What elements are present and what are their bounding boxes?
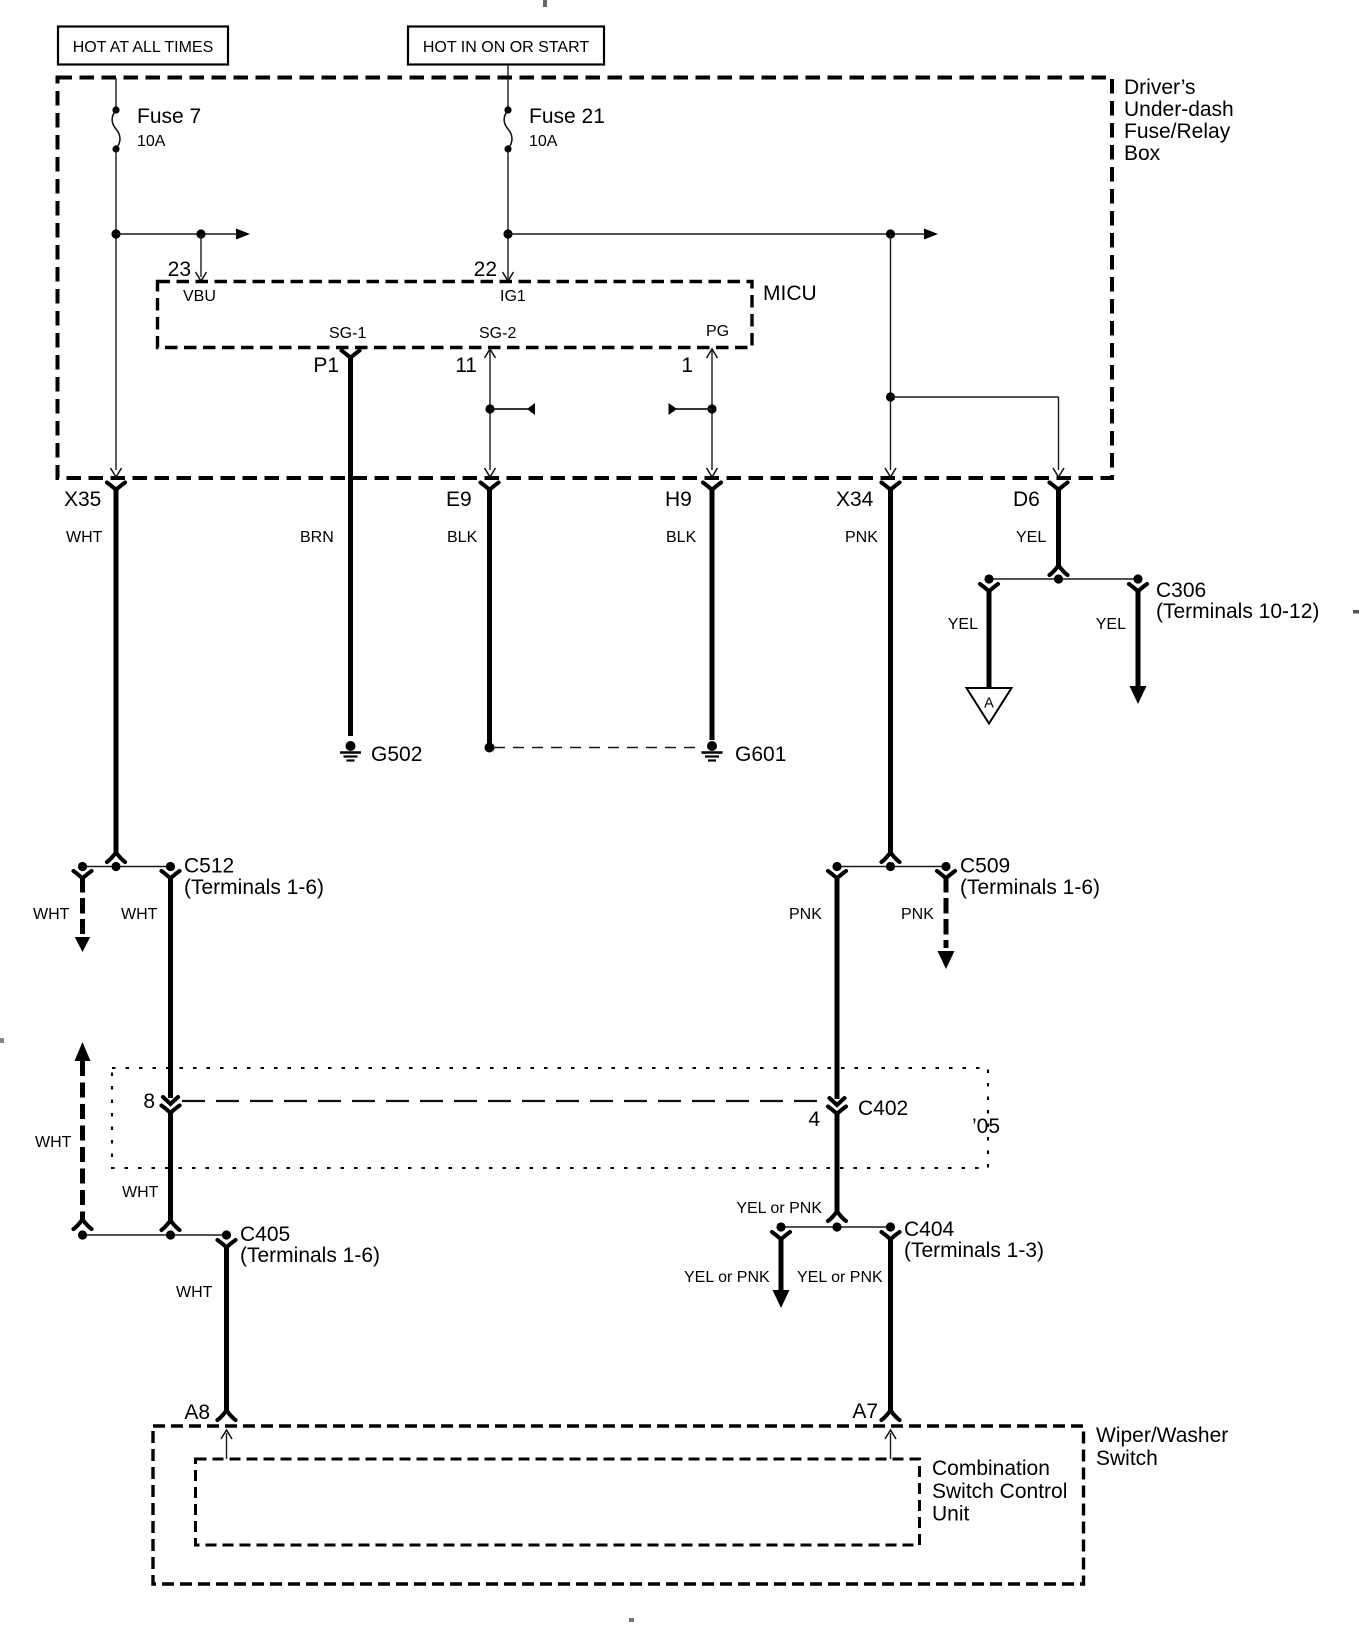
svg-text:YEL or PNK: YEL or PNK (684, 1269, 770, 1286)
arrow into E9 (485, 468, 496, 477)
feed arrow right (right stub) (924, 229, 938, 240)
label C405 (240, 1223, 380, 1267)
C306 male fork at wire end (1050, 567, 1068, 576)
svg-text:YEL: YEL (948, 616, 978, 633)
wire YEL or PNK stub (arrow down) (779, 1238, 784, 1290)
wire BLK H9 to G601 (710, 487, 715, 740)
wire BRN P1 to G502 (348, 356, 353, 736)
stub wire at SG-2 (490, 408, 528, 410)
svg-text:C404: C404 (904, 1218, 955, 1241)
svg-text:C306: C306 (1156, 579, 1206, 602)
connector line C404 (781, 1226, 891, 1228)
dot C512 centre (111, 862, 120, 871)
svg-text:C405: C405 (240, 1223, 290, 1246)
dot C405 left (78, 1230, 87, 1239)
label C509 (960, 855, 1100, 900)
wire from HOT IN ON OR START to Fuse 21 (507, 65, 509, 110)
power label box HOT IN ON OR START (408, 27, 604, 65)
stub arrow (points left) at SG-2 (527, 403, 535, 415)
scan speck left (0, 1038, 4, 1043)
dot C306 right (1133, 574, 1142, 583)
junction dot fuse21/feed (503, 229, 512, 238)
svg-text:H9: H9 (665, 488, 692, 511)
wire YEL to option A (987, 590, 992, 687)
wire fuse21 down to MICU IG1 (507, 149, 509, 279)
svg-text:WHT: WHT (122, 1184, 159, 1201)
Wiper/Washer Switch (dashed box) (153, 1426, 1084, 1584)
label C404 (904, 1218, 1044, 1262)
arrow into MICU IG1 pin 22 (503, 272, 514, 281)
svg-text:23: 23 (168, 258, 191, 281)
svg-text:(Terminals 10-12): (Terminals 10-12) (1156, 600, 1319, 623)
dot C405 right (222, 1230, 231, 1239)
arrow into D6 (1053, 468, 1064, 477)
arrow into X35 (111, 468, 122, 477)
svg-text:X35: X35 (64, 488, 101, 511)
wire WHT C402 to C405 (168, 1111, 173, 1221)
svg-text:A7: A7 (852, 1400, 878, 1423)
svg-text:A: A (984, 696, 994, 712)
svg-text:(Terminals 1-6): (Terminals 1-6) (960, 876, 1100, 899)
svg-text:SG-1: SG-1 (329, 325, 366, 342)
ground G601 symbol (707, 741, 717, 751)
svg-text:WHT: WHT (35, 1134, 72, 1151)
junction dot X34 tap (886, 229, 895, 238)
arrow into X34 (885, 468, 896, 477)
junction dot VBU tap (196, 229, 205, 238)
junction dot D6 tap (886, 392, 895, 401)
wire D6 elbow horizontal (891, 396, 1059, 398)
svg-text:11: 11 (455, 354, 477, 377)
wire WHT C405 to A8 (224, 1246, 229, 1411)
connector H9 (665, 483, 721, 512)
wire YEL continues (arrow down) (1136, 590, 1141, 687)
svg-text:WHT: WHT (121, 906, 158, 923)
svg-text:IG1: IG1 (500, 288, 526, 305)
svg-text:G502: G502 (371, 743, 422, 766)
SG-1 pin cup P1 (342, 351, 360, 358)
C405 cup (218, 1240, 236, 1247)
C402 terminal 4 cup (828, 1107, 846, 1114)
svg-text:C402: C402 (858, 1097, 908, 1120)
dot C404 centre (832, 1222, 841, 1231)
C509 right cup (937, 871, 955, 878)
fuse F7 (Fuse 7 10A) (112, 105, 201, 153)
svg-text:Unit: Unit (932, 1503, 970, 1526)
svg-text:(Terminals 1-6): (Terminals 1-6) (240, 1244, 380, 1267)
svg-text:WHT: WHT (176, 1284, 213, 1301)
arrow into H9 (707, 468, 718, 477)
wire PNK C509 to C402 (835, 877, 840, 1099)
arrow up into MICU SG-2 (485, 349, 496, 358)
label Wiper/Washer Switch (1096, 1424, 1228, 1470)
wire tap down to MICU VBU (200, 234, 202, 277)
connector line C306 (989, 578, 1138, 580)
svg-text:4: 4 (808, 1108, 820, 1131)
svg-text:PNK: PNK (845, 529, 878, 546)
label C512 (184, 855, 324, 900)
wire PG to H9 (711, 349, 713, 470)
svg-text:Combination: Combination (932, 1457, 1050, 1480)
C306 left cup (980, 584, 998, 591)
junction dot E9 wire end (485, 743, 495, 753)
C405 male fork at wire end (162, 1222, 180, 1231)
scan speck right (1353, 610, 1359, 614)
svg-text:YEL: YEL (1096, 616, 1126, 633)
svg-text:BLK: BLK (666, 529, 697, 546)
scan speck top (543, 0, 547, 7)
svg-text:X34: X34 (836, 488, 874, 511)
svg-text:Fuse/Relay: Fuse/Relay (1124, 120, 1231, 143)
dot C404 right (886, 1222, 895, 1231)
ground G502 symbol (346, 741, 356, 751)
fuse box name label (1124, 76, 1234, 165)
svg-text:E9: E9 (446, 488, 472, 511)
arrow into MICU VBU pin 23 (196, 272, 207, 281)
svg-text:YEL: YEL (1016, 529, 1046, 546)
feed wire from fuse21 to X34 tap (508, 233, 926, 235)
svg-text:BRN: BRN (300, 529, 334, 546)
feed arrow right (left stub) (236, 229, 250, 240)
C512 left cup (74, 871, 92, 878)
power label box HOT AT ALL TIMES (58, 27, 228, 65)
dot C405 centre (166, 1230, 175, 1239)
svg-text:22: 22 (474, 258, 497, 281)
connector X34 (836, 483, 900, 512)
svg-text:Box: Box (1124, 142, 1161, 165)
connector line C509 (837, 866, 946, 868)
wire YEL or PNK C404 to A7 (888, 1238, 893, 1411)
wire C402 to C404 (835, 1112, 840, 1212)
C402 terminal 4 male chevron (830, 1098, 845, 1105)
svg-text:YEL or PNK: YEL or PNK (797, 1269, 883, 1286)
C404 male fork at wire end (828, 1213, 846, 1222)
svg-text:P1: P1 (313, 354, 339, 377)
wire X34 feed down (890, 234, 892, 470)
C306 right cup (1129, 584, 1147, 591)
svg-text:10A: 10A (529, 133, 558, 150)
stub arrow (points right) at PG (669, 403, 678, 415)
dot C509 centre (886, 862, 895, 871)
dot C404 left (776, 1222, 785, 1231)
label Combination Switch Control Unit (932, 1457, 1067, 1526)
svg-text:’05: ’05 (972, 1115, 1000, 1138)
svg-text:C509: C509 (960, 855, 1010, 878)
dot C509 right (941, 862, 950, 871)
svg-text:HOT AT ALL TIMES: HOT AT ALL TIMES (73, 39, 214, 56)
svg-text:YEL or PNK: YEL or PNK (736, 1200, 822, 1217)
wire from HOT AT ALL TIMES to Fuse 7 (115, 78, 117, 110)
svg-text:Fuse 21: Fuse 21 (529, 105, 605, 128)
label C306 (1156, 579, 1319, 623)
A8 male fork at wire end (218, 1412, 236, 1421)
arrow up inside box at A7 (890, 1433, 892, 1459)
C512 right cup (162, 871, 180, 878)
C402 terminal 8 male chevron (163, 1097, 178, 1104)
svg-text:10A: 10A (137, 133, 166, 150)
scan speck bottom (629, 1618, 634, 1622)
feed wire from fuse7 (left stub) (116, 233, 240, 235)
dot C512 right (166, 862, 175, 871)
svg-text:1: 1 (681, 354, 693, 377)
C509 left cup (828, 871, 846, 878)
svg-text:PG: PG (706, 323, 729, 340)
connector E9 (446, 483, 499, 512)
wire SG-2 to E9 (489, 349, 491, 470)
svg-text:C512: C512 (184, 855, 234, 878)
svg-text:WHT: WHT (33, 906, 70, 923)
stub wire at PG (676, 408, 712, 410)
svg-text:Switch: Switch (1096, 1447, 1158, 1470)
svg-text:Wiper/Washer: Wiper/Washer (1096, 1424, 1228, 1447)
svg-text:(Terminals 1-6): (Terminals 1-6) (184, 876, 324, 899)
junction dot fuse7/feed (111, 229, 120, 238)
wire PNK X34 to C509 (888, 487, 893, 853)
arrow up inside box at A8 (226, 1433, 228, 1459)
option arrow A (triangle) (967, 688, 1012, 724)
MICU (dashed box) (158, 282, 753, 348)
svg-text:A8: A8 (184, 1401, 210, 1424)
dot C306 centre (1054, 574, 1063, 583)
C404 right cup (882, 1232, 900, 1239)
'05 variant dotted box (112, 1068, 988, 1168)
connector D6 (1013, 483, 1068, 512)
connector line C405 (83, 1234, 227, 1236)
wire PNK stub (dashed, arrow down) (944, 877, 949, 948)
svg-text:BLK: BLK (447, 529, 478, 546)
svg-text:Fuse 7: Fuse 7 (137, 105, 201, 128)
dashed link E9 to G601 (494, 747, 700, 749)
svg-text:Under-dash: Under-dash (1124, 98, 1234, 121)
C509 male fork at wire end (882, 854, 900, 863)
svg-text:(Terminals 1-3): (Terminals 1-3) (904, 1239, 1044, 1262)
connector X35 (64, 483, 125, 512)
svg-text:SG-2: SG-2 (479, 325, 516, 342)
svg-text:PNK: PNK (789, 906, 822, 923)
svg-text:PNK: PNK (901, 906, 934, 923)
wire D6 elbow vertical (1058, 397, 1060, 470)
svg-text:8: 8 (143, 1090, 155, 1113)
wire BLK E9 down (487, 487, 492, 744)
junction dot SG-2 stub (485, 404, 494, 413)
dot C512 left (78, 862, 87, 871)
wire WHT C512 to C402 (168, 877, 173, 1098)
arrow up into MICU PG (707, 349, 718, 358)
Driver's Under-dash Fuse/Relay Box (dashed outline) (58, 78, 1113, 479)
svg-text:WHT: WHT (66, 529, 103, 546)
svg-text:MICU: MICU (763, 282, 817, 305)
C402 tie line (long dashes) (182, 1100, 828, 1102)
wire YEL D6 to C306 (1056, 487, 1061, 566)
connector line C512 (83, 866, 171, 868)
C404 left cup (772, 1232, 790, 1239)
Combination Switch Control Unit (dashed box) (196, 1459, 920, 1545)
A7 male fork at wire end (882, 1412, 900, 1421)
svg-text:G601: G601 (735, 743, 786, 766)
junction dot PG stub (707, 404, 716, 413)
svg-text:Driver’s: Driver’s (1124, 76, 1196, 99)
fuse F21 (Fuse 21 10A) (504, 105, 605, 153)
C405 male fork at branch end (74, 1221, 92, 1230)
svg-text:VBU: VBU (183, 288, 216, 305)
svg-text:D6: D6 (1013, 488, 1040, 511)
wire fuse7 down to X35 (115, 149, 117, 470)
svg-text:Switch Control: Switch Control (932, 1480, 1067, 1503)
svg-text:HOT IN ON OR START: HOT IN ON OR START (423, 39, 589, 56)
dot C306 left (984, 574, 993, 583)
wire WHT stub (dashed, arrow down) (80, 877, 85, 934)
C512 male fork at wire end (107, 854, 125, 863)
wire WHT branch (dashed, arrow up) (75, 1042, 91, 1061)
wire WHT X35 to C512 (114, 487, 119, 853)
dot C509 left (832, 862, 841, 871)
C402 terminal 8 cup (162, 1106, 180, 1113)
